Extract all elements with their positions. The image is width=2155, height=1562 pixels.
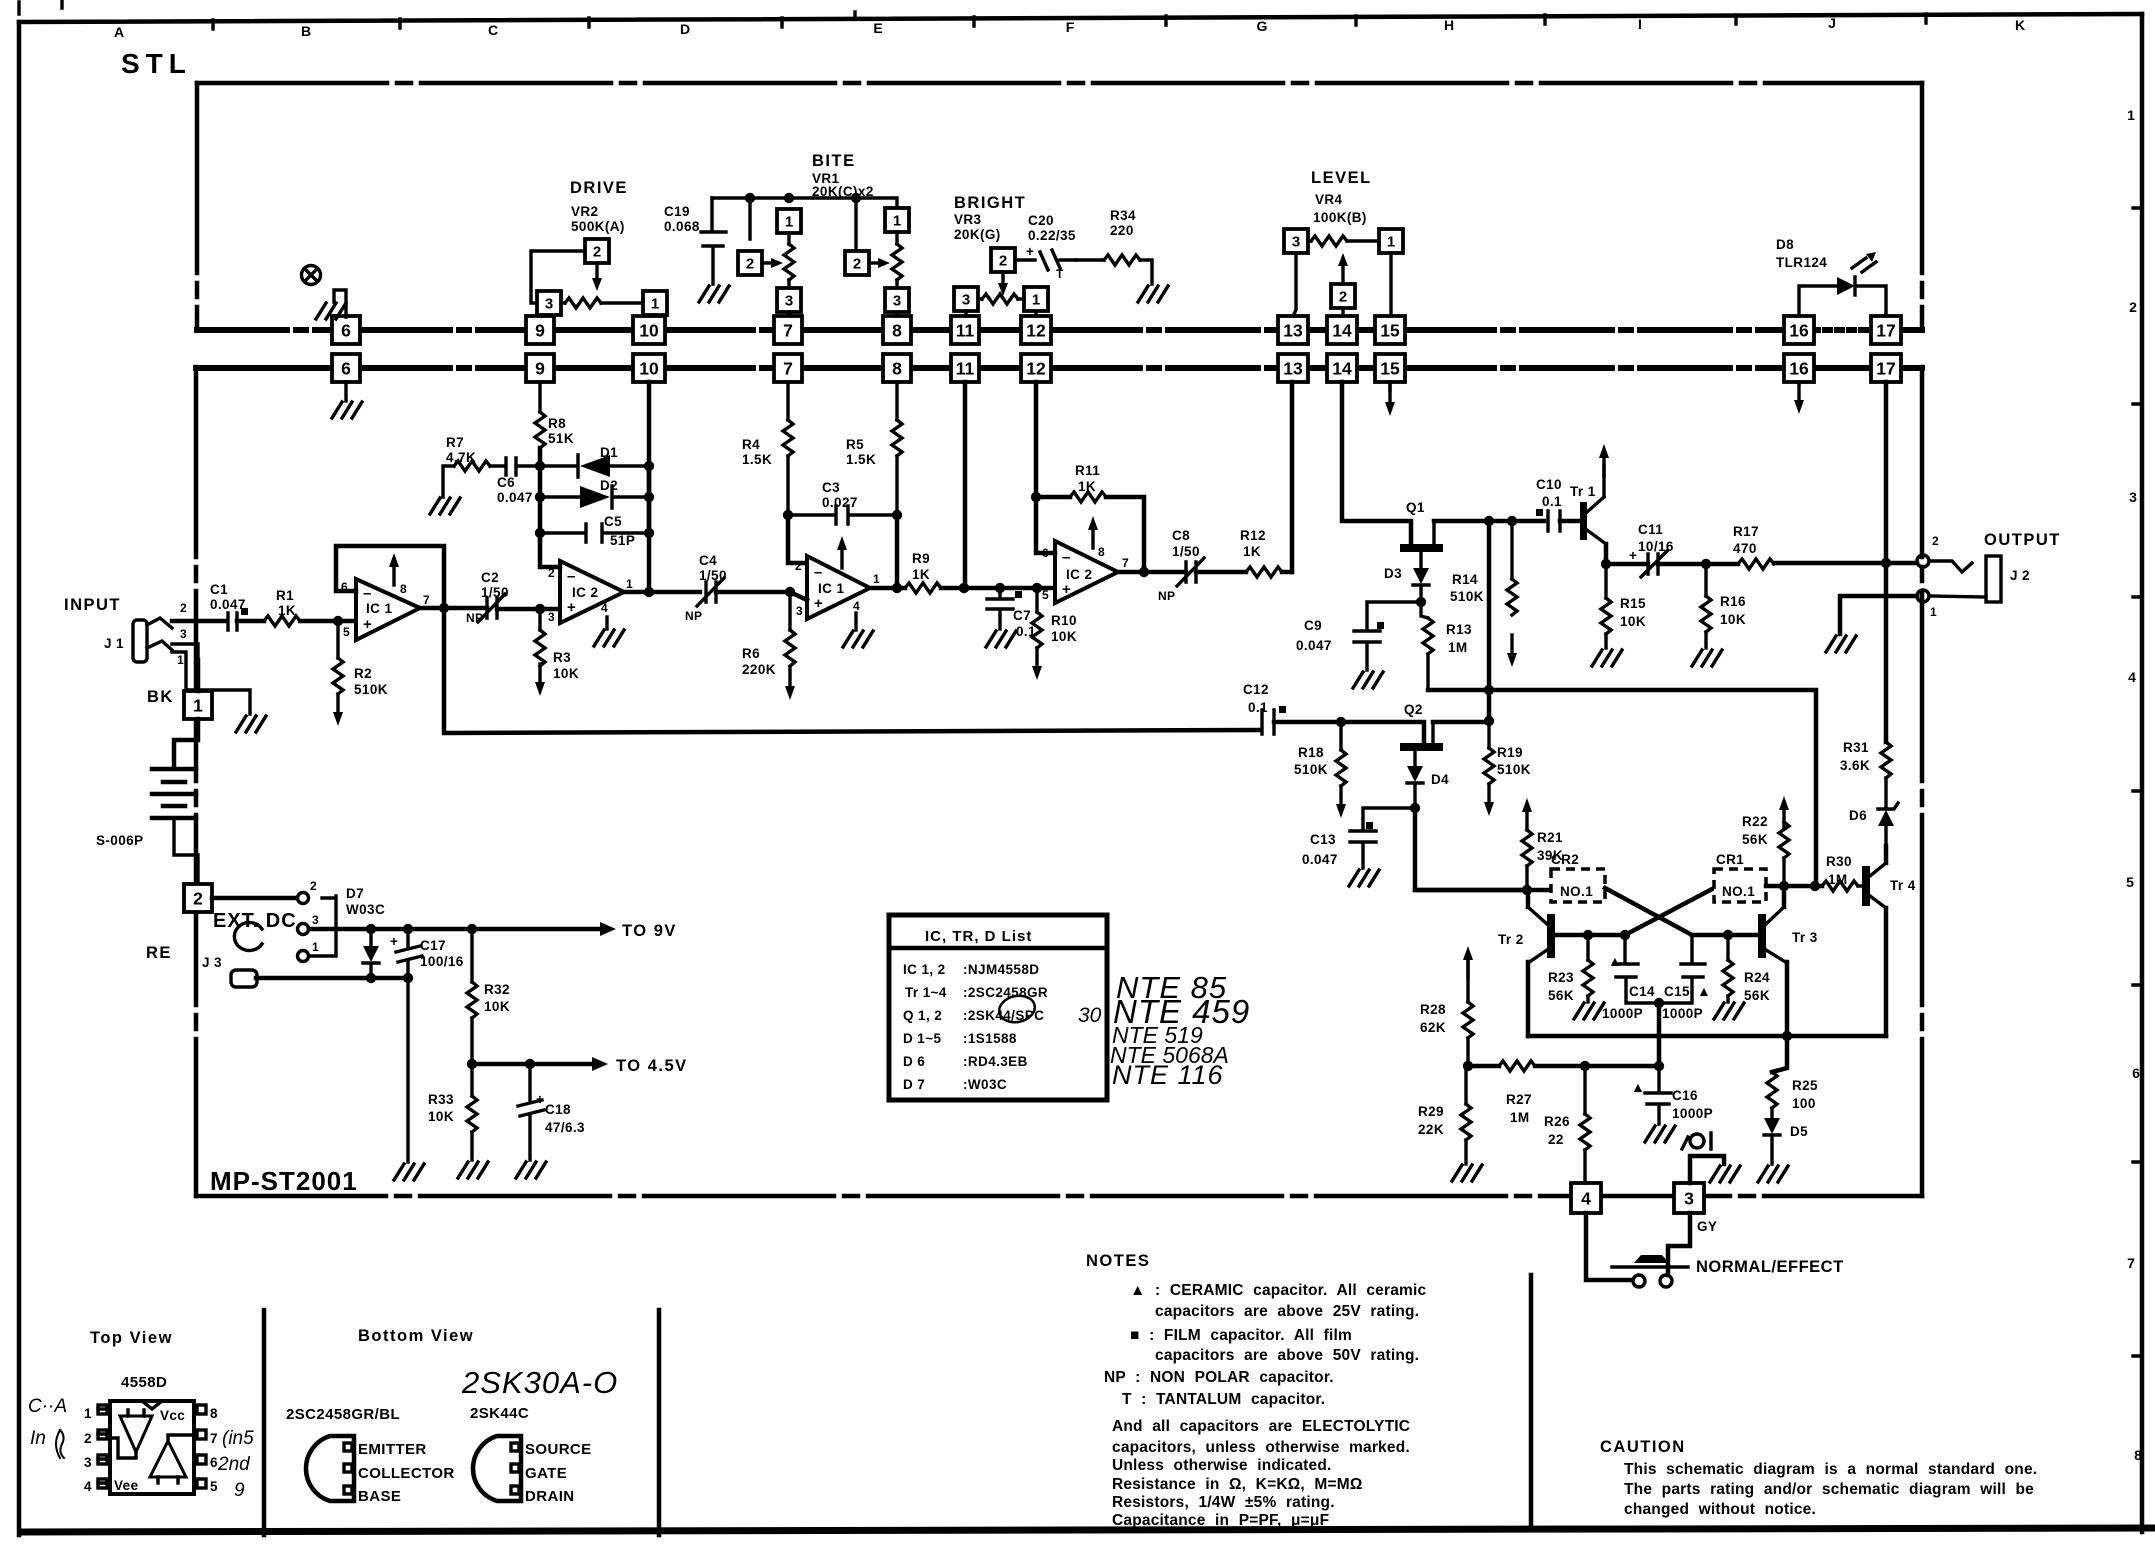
resistor VR1b element xyxy=(895,232,898,244)
svg-text:IC, TR, D List: IC, TR, D List xyxy=(925,928,1032,945)
svg-text:8: 8 xyxy=(2134,1447,2142,1463)
coupling diagonal CR1 to Tr2 xyxy=(1625,888,1714,935)
svg-text:0.047: 0.047 xyxy=(210,597,246,612)
svg-text:1000P: 1000P xyxy=(1672,1106,1713,1121)
svg-text:8: 8 xyxy=(210,1406,218,1421)
svg-text:Unless otherwise indicated.: Unless otherwise indicated. xyxy=(1112,1457,1332,1474)
wire C4 to IC1b xyxy=(716,590,790,595)
IC2 output wire xyxy=(624,590,700,595)
resistor R11 feedback xyxy=(1036,495,1070,500)
screw symbol xyxy=(302,266,321,285)
wire VR4-1 to box15 xyxy=(1389,253,1392,316)
DIP8 opamp A xyxy=(120,1416,152,1452)
svg-text:1: 1 xyxy=(1032,292,1040,309)
svg-text:capacitors are above 50V r: capacitors are above 50V rating. xyxy=(1155,1347,1419,1364)
svg-text:2: 2 xyxy=(310,879,317,893)
potentiometer VR3 terminal box 2 xyxy=(991,248,1015,272)
page border bottom xyxy=(19,1528,2155,1532)
jack J2 xyxy=(1929,561,1972,572)
svg-text:C2: C2 xyxy=(481,570,499,585)
wire C12 to Q2 xyxy=(1274,722,1424,741)
svg-text:510K: 510K xyxy=(354,682,388,697)
4.5V rail xyxy=(472,1062,592,1067)
connector box 17 row1 xyxy=(1871,316,1901,344)
svg-text:2SC2458GR/BL: 2SC2458GR/BL xyxy=(286,1406,400,1423)
svg-text:INPUT: INPUT xyxy=(64,596,121,614)
svg-text:R13: R13 xyxy=(1446,622,1472,637)
resistor R12 xyxy=(1246,567,1282,577)
svg-text:0.047: 0.047 xyxy=(1296,638,1332,653)
svg-text:+: + xyxy=(1629,548,1637,563)
wire Q2 drain to vertical xyxy=(1433,720,1489,725)
svg-text:16: 16 xyxy=(1789,321,1809,341)
svg-text:56K: 56K xyxy=(1742,832,1768,847)
svg-text:3.6K: 3.6K xyxy=(1840,758,1870,773)
wire box6 row1 to ground xyxy=(334,290,346,317)
svg-text:6: 6 xyxy=(2132,1065,2140,1081)
svg-text:–: – xyxy=(814,564,822,581)
wire VR2-2 to left xyxy=(531,251,585,303)
resistor VR1a element xyxy=(787,233,790,244)
resistor R30 xyxy=(1822,881,1858,891)
svg-text:6: 6 xyxy=(341,321,351,341)
svg-text:NOTES: NOTES xyxy=(1086,1252,1150,1270)
DIP8 opamp B xyxy=(150,1441,186,1477)
output contact 2 xyxy=(1917,555,1929,567)
TO92 package 2SK44 xyxy=(473,1436,521,1501)
svg-text::1S1588: :1S1588 xyxy=(963,1031,1017,1046)
svg-text:NP : NON POLAR capacitor.: NP : NON POLAR capacitor. xyxy=(1104,1369,1334,1386)
svg-text:C19: C19 xyxy=(664,204,690,219)
svg-text:C1: C1 xyxy=(210,582,228,597)
svg-text:12: 12 xyxy=(1026,321,1046,341)
svg-text:R33: R33 xyxy=(428,1092,454,1107)
svg-text:3: 3 xyxy=(893,293,901,310)
svg-text:8: 8 xyxy=(892,321,902,341)
svg-text:1000P: 1000P xyxy=(1602,1006,1643,1021)
enclosure dash-dot bottom edge xyxy=(196,1194,1922,1199)
svg-text:3: 3 xyxy=(312,913,319,927)
Q1 drain wire xyxy=(1434,519,1544,524)
svg-text:47/6.3: 47/6.3 xyxy=(545,1120,585,1135)
zener diode D6 xyxy=(1878,810,1894,826)
svg-text:R32: R32 xyxy=(484,982,510,997)
wire VR3-2 to C20 xyxy=(1015,258,1035,261)
svg-text:STL: STL xyxy=(121,48,192,79)
resistor R16 xyxy=(1704,564,1707,596)
ground R34 xyxy=(1138,286,1168,302)
svg-text:+: + xyxy=(363,616,372,633)
svg-text:BITE: BITE xyxy=(812,152,856,170)
ground wire for J2 xyxy=(1840,596,1917,634)
svg-text:6: 6 xyxy=(210,1455,218,1470)
EXT DC plug hook xyxy=(234,923,262,951)
svg-text:Tr 1: Tr 1 xyxy=(1570,484,1596,499)
LED D8 wiring xyxy=(1799,286,1886,316)
svg-text:3: 3 xyxy=(84,1455,92,1470)
wire J1 sleeve to box1 xyxy=(196,660,201,691)
svg-text:0.1: 0.1 xyxy=(1542,494,1562,509)
resistor R5 xyxy=(895,382,898,420)
connector box 6 row1 xyxy=(332,316,360,344)
ground C19 xyxy=(699,286,729,302)
resistor R24 xyxy=(1726,935,1729,960)
svg-text:3: 3 xyxy=(1292,234,1300,251)
svg-text:10K: 10K xyxy=(428,1109,454,1124)
svg-text:12: 12 xyxy=(1026,359,1046,379)
resistor R27 xyxy=(1499,1061,1535,1071)
svg-text:I: I xyxy=(1638,16,1642,32)
diode D2 xyxy=(540,486,649,508)
svg-text:56K: 56K xyxy=(1548,988,1574,1003)
emitter node to output wire xyxy=(1606,562,1648,567)
wire box11 row2 down xyxy=(963,382,968,588)
svg-text:22K: 22K xyxy=(1418,1122,1444,1137)
wire VR1b-3 to box8 xyxy=(895,312,898,316)
connector box 10 row1 xyxy=(633,316,665,344)
IC1 output wire xyxy=(420,606,487,611)
long wire R13 to flipflop xyxy=(1428,690,1816,886)
ground R7 xyxy=(430,498,460,514)
svg-text:1K: 1K xyxy=(1078,479,1096,494)
resistor R4 xyxy=(786,382,789,420)
wire J1 tip to C1 xyxy=(172,619,225,624)
potentiometer VR4 terminal box 2 xyxy=(1331,284,1355,308)
svg-text:TLR124: TLR124 xyxy=(1776,255,1827,270)
svg-text:GATE: GATE xyxy=(525,1465,567,1482)
page border right xyxy=(2140,14,2145,1532)
svg-text:15: 15 xyxy=(1380,359,1400,379)
svg-text:J 3: J 3 xyxy=(202,955,222,970)
svg-text:F: F xyxy=(1066,19,1075,35)
wire R12 to box13 column xyxy=(1282,570,1292,575)
resistor VR2 element xyxy=(561,301,565,304)
connector box 16 row1 xyxy=(1784,316,1814,344)
wire R1 to IC1 xyxy=(300,619,356,624)
svg-text:510K: 510K xyxy=(1497,762,1531,777)
svg-text:CR1: CR1 xyxy=(1716,852,1744,867)
handwritten circle around 44 xyxy=(997,993,1038,1026)
svg-text:C3: C3 xyxy=(822,480,840,495)
svg-text:5: 5 xyxy=(210,1479,218,1494)
svg-text:R5: R5 xyxy=(846,437,864,452)
svg-text:1: 1 xyxy=(312,940,319,954)
vertical Q1 drain to Q2 xyxy=(1487,521,1492,721)
svg-text:R16: R16 xyxy=(1720,594,1746,609)
supply arrow below R18 xyxy=(1336,786,1346,818)
resistor R1 xyxy=(264,616,300,626)
IC2b output wire xyxy=(1118,570,1186,575)
wire VR4-2 to box14 xyxy=(1341,308,1344,316)
potentiometer VR1a terminal box 1 xyxy=(777,209,801,233)
svg-text:▲: ▲ xyxy=(1631,1079,1645,1095)
svg-text:GY: GY xyxy=(1697,1219,1717,1234)
svg-text:7: 7 xyxy=(423,593,430,607)
Tr1 emitter wire xyxy=(1604,544,1609,564)
svg-text:C16: C16 xyxy=(1672,1088,1698,1103)
svg-text:100/16: 100/16 xyxy=(420,954,464,969)
svg-text:3: 3 xyxy=(785,293,793,310)
svg-text:R9: R9 xyxy=(912,551,930,566)
enclosure dash-dot left edge lower xyxy=(194,367,199,1196)
op-amp IC1 xyxy=(356,579,420,640)
potentiometer VR1a terminal box 2 xyxy=(738,251,762,275)
connector box 10 row2 xyxy=(633,354,665,382)
svg-text:2: 2 xyxy=(2129,299,2137,315)
svg-text:0.027: 0.027 xyxy=(822,495,858,510)
notes divider xyxy=(1529,1275,1534,1527)
potentiometer VR2 terminal box 2 xyxy=(585,239,609,263)
VR3 wiper arrow xyxy=(1001,272,1004,283)
svg-text:R18: R18 xyxy=(1298,745,1324,760)
capacitor C6 xyxy=(490,458,516,475)
resistor R9 xyxy=(905,583,941,593)
op-amp IC2b xyxy=(1055,541,1118,603)
svg-text:8: 8 xyxy=(892,359,902,379)
svg-text:J 1: J 1 xyxy=(104,636,124,651)
wire C3 node to IC1b pin2 xyxy=(788,515,807,563)
svg-text:R14: R14 xyxy=(1452,572,1478,587)
connector box 17 row2 xyxy=(1871,354,1901,382)
wire contact3 to D7 line xyxy=(309,927,600,932)
DIP8 package xyxy=(110,1401,194,1494)
wire VR2-3 to box9 xyxy=(543,315,547,316)
svg-text:10K: 10K xyxy=(553,666,579,681)
svg-text:9: 9 xyxy=(234,1480,245,1501)
potentiometer VR3 terminal box 3 xyxy=(954,287,978,311)
capacitor C16 xyxy=(1645,1066,1671,1124)
svg-text:3: 3 xyxy=(548,610,555,624)
svg-text:62K: 62K xyxy=(1420,1020,1446,1035)
connector box 14 row1 xyxy=(1327,316,1357,344)
LED D8 xyxy=(1837,277,1855,295)
wire R17 to output xyxy=(1774,561,1917,566)
capacitor C17 electrolytic xyxy=(396,929,422,978)
svg-text:OUTPUT: OUTPUT xyxy=(1984,531,2061,549)
connector box 9 row2 xyxy=(526,354,554,382)
svg-text:4: 4 xyxy=(1581,1189,1591,1209)
svg-text:2nd: 2nd xyxy=(217,1454,251,1475)
svg-text:A: A xyxy=(114,24,124,40)
svg-text:G: G xyxy=(1257,18,1268,34)
supply arrow below R2 xyxy=(333,694,343,726)
connector box 11 row2 xyxy=(951,354,979,382)
svg-text:Resistors, 1/4W ±5% rating.: Resistors, 1/4W ±5% rating. xyxy=(1112,1494,1335,1511)
svg-text:20K(G): 20K(G) xyxy=(954,227,1001,242)
connector box 13 row1 xyxy=(1278,316,1308,344)
svg-text:–: – xyxy=(1062,549,1070,566)
potentiometer VR1a terminal box 3 xyxy=(777,288,801,312)
wire VR3-1 to box12 xyxy=(1034,311,1037,316)
switch common bar xyxy=(309,896,336,956)
svg-text:R19: R19 xyxy=(1497,745,1523,760)
svg-text:NP: NP xyxy=(1158,589,1175,603)
svg-text:1: 1 xyxy=(177,653,184,667)
svg-text:3: 3 xyxy=(1684,1189,1694,1209)
svg-text:17: 17 xyxy=(1876,359,1895,379)
svg-text:BK: BK xyxy=(147,688,174,706)
supply arrow below R3 xyxy=(535,664,545,696)
svg-text:E: E xyxy=(873,20,882,36)
resistor R7 xyxy=(443,466,454,497)
svg-text:2: 2 xyxy=(193,889,203,909)
svg-text:R11: R11 xyxy=(1075,463,1100,478)
svg-text:R17: R17 xyxy=(1733,524,1759,539)
top ticks xyxy=(213,12,1926,29)
svg-text:This schematic diagram is: This schematic diagram is a normal stand… xyxy=(1624,1461,2037,1478)
svg-text:DRIVE: DRIVE xyxy=(570,179,628,197)
svg-text:11: 11 xyxy=(956,321,975,341)
connector box 13 row2 xyxy=(1278,354,1308,382)
svg-text:0.047: 0.047 xyxy=(497,490,533,505)
Tr2 emitter leg xyxy=(1526,962,1531,1036)
LED D8 emission arrows xyxy=(1852,258,1876,272)
svg-text:VR3: VR3 xyxy=(954,212,982,227)
svg-text:2: 2 xyxy=(1339,289,1347,306)
svg-text:DRAIN: DRAIN xyxy=(525,1488,575,1505)
enclosure dash-dot top edge xyxy=(197,81,1922,86)
potentiometer VR1b terminal box 1 xyxy=(885,208,909,232)
svg-text:R25: R25 xyxy=(1792,1078,1818,1093)
svg-text:Capacitance in P=PF, μ=μF: Capacitance in P=PF, μ=μF xyxy=(1112,1512,1329,1529)
svg-text:Q1: Q1 xyxy=(1406,500,1425,515)
svg-text:C13: C13 xyxy=(1310,832,1336,847)
wire C2 to IC2 xyxy=(497,607,560,612)
FET Q2 xyxy=(1400,743,1443,751)
IC2 pin4 ground xyxy=(605,617,608,629)
node dots on BITE top wire xyxy=(745,193,755,203)
svg-text:1: 1 xyxy=(626,577,633,591)
resistor R28 xyxy=(1463,946,1473,978)
connector box 8 row2 xyxy=(883,354,911,382)
box 1 battery xyxy=(184,691,212,719)
svg-text:1: 1 xyxy=(84,1406,92,1421)
svg-text:NP: NP xyxy=(466,611,483,625)
svg-text:100K(B): 100K(B) xyxy=(1313,210,1367,225)
node R1/R2 xyxy=(333,616,343,626)
svg-text:C14: C14 xyxy=(1629,984,1655,999)
ground under box6 row2 xyxy=(344,382,347,401)
page border top xyxy=(19,14,2142,22)
IC1 feedback loop wire xyxy=(336,546,444,607)
svg-text:NP: NP xyxy=(685,609,702,623)
svg-text:1: 1 xyxy=(785,214,793,231)
svg-text::W03C: :W03C xyxy=(963,1077,1007,1092)
IC1b V+ arrow xyxy=(837,536,847,568)
svg-text:R8: R8 xyxy=(548,416,566,431)
svg-text:10K: 10K xyxy=(1720,612,1746,627)
svg-text:10K: 10K xyxy=(1051,629,1077,644)
wire box15 row2 arrow xyxy=(1388,382,1391,390)
svg-text:1.5K: 1.5K xyxy=(742,452,772,467)
svg-text:1: 1 xyxy=(873,572,880,586)
arrow TO 9V xyxy=(600,922,616,936)
svg-text:11: 11 xyxy=(956,359,975,379)
capacitor C4 nonpolar xyxy=(697,578,724,606)
svg-text:C··A: C··A xyxy=(28,1396,67,1417)
ground J1 xyxy=(236,716,266,732)
diode D3 xyxy=(1413,568,1429,584)
svg-text:3: 3 xyxy=(962,292,970,309)
connector box 11 row1 xyxy=(951,316,979,344)
resistor R25 xyxy=(1772,1036,1787,1072)
svg-text:The parts rating and/or sc: The parts rating and/or schematic diagra… xyxy=(1624,1481,2034,1498)
svg-text:2: 2 xyxy=(593,244,601,261)
connector box 9 row1 xyxy=(526,316,554,344)
svg-text:H: H xyxy=(1444,17,1454,33)
svg-text:EXT. DC: EXT. DC xyxy=(213,910,297,932)
svg-text:10K: 10K xyxy=(1620,614,1646,629)
resistor R8 xyxy=(538,382,541,412)
bus row1 wire segments xyxy=(197,327,332,333)
svg-text:7: 7 xyxy=(1122,556,1129,570)
svg-text:VR2: VR2 xyxy=(571,204,598,219)
svg-text:0.047: 0.047 xyxy=(1302,852,1338,867)
svg-text:+: + xyxy=(1026,244,1034,259)
supply arrow below R6 xyxy=(785,668,795,700)
svg-text:C11: C11 xyxy=(1638,522,1663,537)
svg-text:+: + xyxy=(390,934,398,949)
svg-text:500K(A): 500K(A) xyxy=(571,219,625,234)
svg-text:2: 2 xyxy=(1932,534,1939,548)
potentiometer VR2 terminal box 1 xyxy=(643,291,667,315)
capacitor C8 nonpolar xyxy=(1177,558,1204,586)
wire C3 right node to output xyxy=(895,515,900,588)
svg-text:R2: R2 xyxy=(354,666,372,681)
svg-text:3: 3 xyxy=(796,604,803,618)
enclosure dash-dot left edge upper xyxy=(195,83,200,330)
svg-text:NORMAL/EFFECT: NORMAL/EFFECT xyxy=(1696,1258,1844,1276)
svg-text:470: 470 xyxy=(1733,541,1757,556)
wire R9 to IC2b xyxy=(941,586,1055,591)
svg-text:10: 10 xyxy=(639,359,659,379)
svg-text:Top View: Top View xyxy=(90,1329,173,1347)
svg-text:R23: R23 xyxy=(1548,970,1574,985)
resistor R31 xyxy=(1881,742,1891,778)
svg-text:C12: C12 xyxy=(1243,682,1269,697)
resistor R34 xyxy=(1076,258,1104,261)
svg-text:+: + xyxy=(567,599,576,616)
svg-text:2: 2 xyxy=(84,1431,92,1446)
svg-text:CAUTION: CAUTION xyxy=(1600,1438,1686,1456)
svg-text:changed without notice.: changed without notice. xyxy=(1624,1501,1816,1518)
svg-text:Vee: Vee xyxy=(114,1478,139,1493)
C14 C15 common stem xyxy=(1657,1003,1662,1066)
svg-text:1000P: 1000P xyxy=(1662,1006,1703,1021)
svg-text:3: 3 xyxy=(545,296,553,313)
panel divider right xyxy=(657,1310,662,1535)
wire box12 row2 down to pin6 xyxy=(1036,382,1055,553)
svg-text:TO 9V: TO 9V xyxy=(622,922,677,940)
svg-text:R27: R27 xyxy=(1506,1092,1532,1107)
wire C17 bottom to ground xyxy=(406,978,409,1162)
svg-text:SOURCE: SOURCE xyxy=(525,1441,592,1458)
wire C8 to R12 xyxy=(1196,570,1246,575)
svg-text:D 6: D 6 xyxy=(903,1054,925,1069)
svg-text:R4: R4 xyxy=(742,437,760,452)
DIP8 pin stubs right xyxy=(197,1405,206,1414)
Tr4 collector wire xyxy=(1884,846,1889,863)
svg-text:capacitors, unless otherwise: capacitors, unless otherwise marked. xyxy=(1112,1439,1410,1456)
svg-text:C8: C8 xyxy=(1172,528,1190,543)
page border left xyxy=(17,22,22,1535)
capacitor C5 xyxy=(540,524,649,542)
svg-text:14: 14 xyxy=(1332,359,1352,379)
capacitor C3 xyxy=(788,506,897,524)
diode D1 xyxy=(540,455,649,477)
svg-text:Tr 2: Tr 2 xyxy=(1498,932,1524,947)
wire box14 row2 to Q1 gate xyxy=(1342,382,1411,542)
